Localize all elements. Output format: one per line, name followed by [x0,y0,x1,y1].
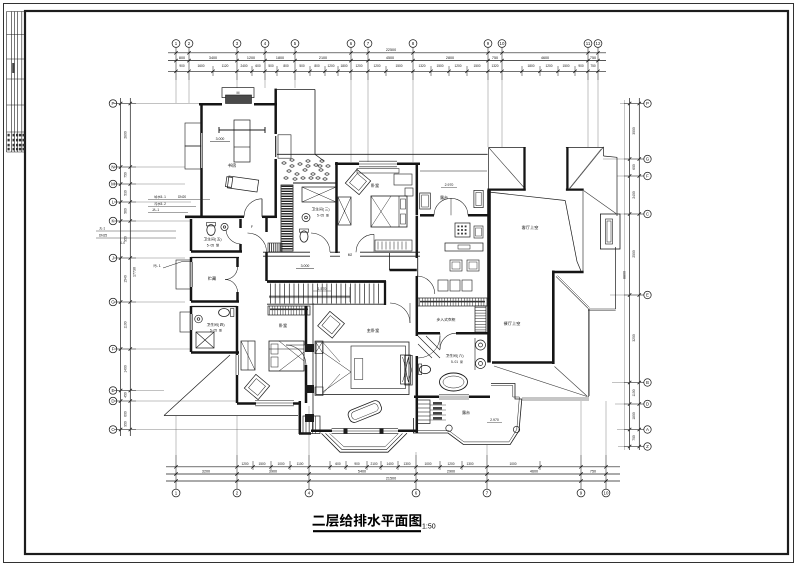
svg-text:10: 10 [500,41,505,46]
svg-text:1100: 1100 [632,389,636,396]
study top bay window M [222,88,254,104]
study room walls [185,89,277,218]
svg-text:K: K [112,219,115,224]
top grid bubbles [172,40,602,48]
main bedroom south wall window [311,428,417,434]
bathroom five toilet [207,225,215,236]
svg-text:F: F [112,347,115,352]
svg-text:JL-1: JL-1 [99,227,105,231]
terrace stair riser cluster [417,400,446,424]
svg-text:11: 11 [586,41,591,46]
bathroom3 washer box [302,187,336,202]
svg-text:800: 800 [179,56,185,60]
bathroom3 labels [312,208,315,211]
svg-text:1200: 1200 [247,56,255,60]
bottom grid bubbles [172,489,610,497]
svg-text:1200: 1200 [241,462,248,466]
title block strip table [7,12,26,153]
bedroom2 corner chair [345,169,370,194]
upper terrace walls [420,171,488,215]
svg-text:N: N [111,165,114,170]
svg-text:560: 560 [124,208,128,214]
top grid dimension lines [168,48,606,81]
bedroom1 bed [269,341,304,371]
bathroom four shower [196,332,214,348]
bathroom3 sink [302,214,310,222]
svg-text:F: F [646,174,649,179]
bathroom3 door arc [311,233,330,252]
svg-text:1200: 1200 [454,64,461,68]
study window sill boxes [185,123,201,146]
tea room cushions [438,280,448,291]
bedroom2 wardrobe [338,197,351,225]
left leader labels near storage [96,227,176,246]
tea room door arc [417,276,435,294]
svg-text:3900: 3900 [269,469,277,473]
bathroom four sink [195,315,203,323]
svg-text:D: D [111,399,114,404]
living room void [487,191,583,272]
svg-text:1300: 1300 [466,462,473,466]
bathroom6 shower corner [418,336,440,358]
svg-text:DN25: DN25 [99,234,107,238]
svg-text:2500: 2500 [632,250,636,258]
title block small text rows [8,63,25,150]
svg-text:1500: 1500 [395,64,402,68]
svg-text:1320: 1320 [491,64,498,68]
lower terrace railing [413,384,521,445]
svg-text:530: 530 [124,190,128,196]
svg-text:10: 10 [604,491,609,496]
bedroom2 dresser [394,174,412,185]
drain label W-1 [153,264,156,267]
svg-text:1500: 1500 [473,64,480,68]
study chaise chair [225,176,258,192]
svg-text:750: 750 [492,56,498,60]
svg-text:17730: 17730 [133,267,137,277]
svg-text:1200: 1200 [373,64,380,68]
roof dormer east [600,214,620,249]
main bedroom north hall walls [389,253,391,270]
bedroom2 bed [371,196,407,227]
grid extension lines bottom [176,401,606,455]
storage double door arcs [225,267,238,280]
stairs [267,281,386,305]
corridor door arc F [248,233,267,252]
svg-text:800: 800 [283,64,289,68]
svg-text:2900: 2900 [447,469,455,473]
svg-text:21500: 21500 [386,476,396,480]
study desk-bed [219,120,265,162]
right grid dimension lines [623,98,645,450]
svg-text:2400: 2400 [632,191,636,199]
svg-text:950: 950 [124,421,128,427]
closet walls [416,332,440,335]
svg-text:): ) [328,208,329,212]
svg-text:1800: 1800 [632,412,636,420]
study elevation label [210,141,230,143]
bathroom3 walls [263,183,340,256]
svg-text:2800: 2800 [124,131,128,139]
corridor south wall and shoe cabinet [268,243,282,252]
svg-text:1400: 1400 [124,365,128,373]
svg-text:G: G [646,157,650,162]
tea room chair right [474,226,483,238]
svg-text:4-4: 4-4 [120,241,125,245]
svg-text:1800: 1800 [527,64,534,68]
left grid dimension lines [114,98,137,436]
bedroom2 label [371,184,375,188]
svg-text:1000: 1000 [277,462,284,466]
svg-text:5: 5 [322,214,324,218]
svg-text:A: A [646,427,649,432]
left extension lines [117,104,300,430]
svg-text:1000: 1000 [509,462,516,466]
svg-text:1:50: 1:50 [422,524,436,531]
svg-text:2800: 2800 [446,56,454,60]
svg-text:P: P [646,101,649,106]
entry void outline and eave line [276,90,488,162]
tea room chairs pair [450,260,462,271]
bathroom five walls [185,218,242,252]
svg-text:J/L-1: J/L-1 [152,208,159,212]
left grid bubbles [109,100,117,434]
svg-text:1200: 1200 [355,64,362,68]
grid extension lines top [176,80,598,162]
svg-text:600: 600 [255,64,261,68]
roof wing northwest [487,147,525,190]
svg-text:1400: 1400 [386,462,393,466]
svg-text:G: G [111,300,115,305]
chimney flue [405,355,412,385]
storage sill box [176,260,191,289]
svg-text:2400: 2400 [240,64,247,68]
drawing title underline [313,530,421,532]
svg-text:1320: 1320 [418,64,425,68]
bedroom1 and party walls [237,303,314,430]
plumbing riser cluster [281,158,331,180]
study door arc [244,199,262,217]
svg-text:500: 500 [299,64,305,68]
main bedroom label [367,328,371,332]
svg-text:2.970: 2.970 [445,183,454,187]
bathroom five labels [204,238,207,241]
svg-text:F: F [251,225,253,229]
svg-text:3000: 3000 [632,127,636,135]
bathroom five door arc [226,230,241,245]
bathroom6 tub [440,373,468,391]
bottom grid dimension lines [166,455,620,489]
bathroom6 door arc [440,333,456,349]
svg-text:1300: 1300 [403,462,410,466]
hall south wall and steps [299,401,320,434]
svg-text:600: 600 [124,411,128,417]
closet label [437,318,440,321]
svg-text:M: M [111,182,115,187]
svg-text:1500: 1500 [436,64,443,68]
svg-text:3200: 3200 [632,334,636,342]
svg-text:Z: Z [646,444,649,449]
left leader labels near study [148,195,210,213]
bathroom3 toilet [300,231,308,242]
bathroom five sink [221,223,228,230]
bedroom1 door arc [286,345,306,365]
svg-text:1500: 1500 [562,64,569,68]
svg-text:4600: 4600 [541,56,549,60]
main bedroom chaise [347,399,383,424]
svg-text:900: 900 [578,64,584,68]
upper terrace double doors [434,198,451,215]
svg-text:): ) [223,323,224,327]
bedroom1 label [279,324,283,328]
svg-text:B: B [646,380,649,385]
bathroom6 sinks [476,340,486,350]
svg-text:3400: 3400 [209,56,217,60]
svg-text:8800: 8800 [623,271,627,279]
svg-text:3.000: 3.000 [216,137,225,141]
svg-text:D: D [646,402,649,407]
roof wing northeast [566,147,617,216]
svg-text:1200: 1200 [447,462,454,466]
closet hatch band right [475,306,486,332]
southwest eave wedge [164,415,298,417]
svg-text:22500: 22500 [386,48,396,52]
svg-text:800: 800 [314,64,320,68]
pipe shaft hatched [281,185,293,251]
svg-text:1: 1 [164,195,166,199]
svg-text:1100: 1100 [124,321,128,328]
bathroom6 south wall window [414,395,490,399]
svg-text:1000: 1000 [424,462,431,466]
svg-text:750: 750 [590,64,596,68]
svg-text:1200: 1200 [545,64,552,68]
svg-text:1100: 1100 [297,462,304,466]
svg-text:750: 750 [124,172,128,178]
svg-text:5: 5 [215,329,217,333]
roof southeast hip and edges [556,247,616,397]
svg-text:2: 2 [164,202,166,206]
bedroom2 walls [335,161,420,257]
bedroom1 chair [244,374,269,399]
svg-text:C: C [646,212,649,217]
svg-text:900: 900 [179,64,185,68]
svg-text:1540: 1540 [124,275,128,283]
bathroom four toilet [219,309,230,317]
svg-text:1600: 1600 [197,64,204,68]
stair hall left wall [265,217,268,232]
svg-text:5400: 5400 [358,469,366,473]
main bed [315,341,411,396]
svg-text:J: J [112,256,114,261]
svg-text:1120: 1120 [222,64,229,68]
svg-text:600: 600 [335,462,341,466]
svg-text:2100: 2100 [319,56,327,60]
svg-text:M: M [237,91,240,95]
svg-text:M2: M2 [348,253,353,257]
bathroom four walls [190,306,239,403]
svg-text:P: P [112,101,115,106]
svg-text:3.000: 3.000 [301,264,310,268]
svg-text:1800: 1800 [276,56,284,60]
tea room counter [445,243,483,251]
svg-text:1500: 1500 [258,462,265,466]
svg-text:E: E [646,293,649,298]
svg-text:): ) [220,238,221,242]
main bedroom corner chair [318,311,345,338]
upper terrace planters [420,193,431,209]
main bedroom door arc [390,303,410,323]
svg-text:2100: 2100 [370,462,377,466]
bathroom6 toilet [419,365,430,373]
bay balcony trapezoid [322,433,408,452]
svg-text:4500: 4500 [386,56,394,60]
bedroom2 door arc [356,234,374,252]
svg-text:500: 500 [268,64,274,68]
dining void [492,271,554,365]
closet hatch band top [418,298,487,306]
svg-text:4600: 4600 [530,469,538,473]
lower terrace labels [462,411,466,415]
dining roof south band [494,366,589,400]
svg-text:900: 900 [354,462,360,466]
svg-text:5: 5 [212,244,214,248]
svg-text:700: 700 [632,435,636,441]
bedroom2 tv cabinet [375,240,412,251]
bathroom6 labels [446,354,449,357]
bathroom4 sill box [180,312,191,332]
tea room west wall stub [417,258,419,276]
svg-text:1800: 1800 [340,64,347,68]
drawing title text [313,516,325,526]
bedroom1 wardrobe [241,341,255,370]
svg-text:): ) [462,354,463,358]
svg-text:12: 12 [596,41,601,46]
svg-text:1200: 1200 [327,64,334,68]
svg-text:1: 1 [159,264,161,268]
bedroom1 closet hatch [268,306,310,315]
svg-text:DN20: DN20 [178,195,186,199]
svg-text:600: 600 [632,164,636,170]
svg-text:1.570: 1.570 [318,287,327,291]
bathroom6 east thick wall [487,190,491,362]
main bedroom east wall [416,164,419,433]
right extension lines [603,104,643,447]
svg-text:750: 750 [590,469,596,473]
tea room table [455,223,470,237]
study room label [228,163,232,167]
svg-text:2.970: 2.970 [490,418,499,422]
svg-text:1: 1 [456,360,458,364]
storage label [208,276,212,280]
svg-text:750: 750 [590,56,596,60]
svg-text:C: C [111,427,114,432]
svg-text:E: E [112,388,115,393]
svg-text:450: 450 [124,392,128,398]
right grid bubbles [644,100,651,450]
storage room walls [190,257,239,302]
bathroom four labels [207,323,210,326]
svg-text:3200: 3200 [202,469,210,473]
